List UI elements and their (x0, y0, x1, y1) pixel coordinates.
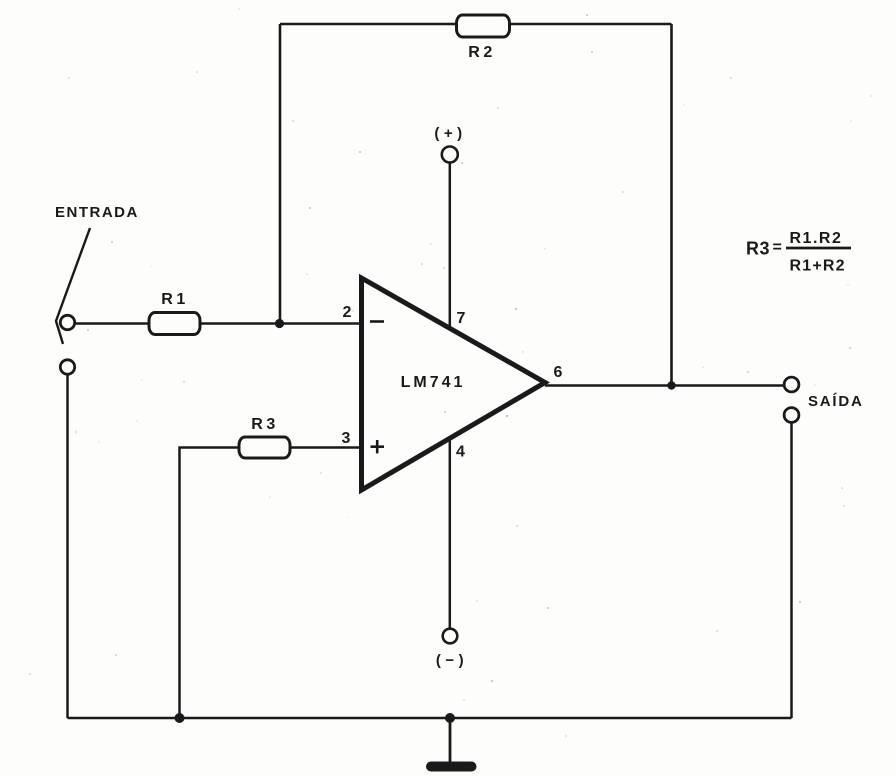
wire: right feedback vertical (670, 24, 673, 386)
svg-text:(−): (−) (436, 652, 468, 669)
wire: R1 to pin 2 (200, 322, 361, 325)
wire: input ground side down (66, 375, 69, 719)
wire: input to R1 (75, 322, 149, 325)
svg-text:7: 7 (457, 310, 466, 327)
resistor R3 (239, 437, 290, 458)
svg-text:(+): (+) (434, 125, 466, 142)
node: junction R1/feedback (275, 319, 284, 328)
svg-text:=: = (773, 239, 782, 256)
svg-text:4: 4 (456, 444, 465, 461)
wire: R3 left to vertical (180, 448, 240, 719)
ground (449, 718, 452, 763)
wire: R3 to pin 3 (290, 446, 361, 449)
wire: output ground side down (790, 423, 793, 719)
svg-text:R3: R3 (251, 416, 278, 433)
svg-text:R2: R2 (468, 44, 495, 61)
svg-text:R1+R2: R1+R2 (790, 258, 846, 275)
node: junction R3/ground rail (175, 713, 185, 723)
leader line from ENTRADA (56, 228, 90, 344)
svg-text:LM741: LM741 (401, 374, 466, 391)
wire: bottom ground rail (68, 717, 792, 720)
op-amp U1 LM741 triangle (362, 278, 546, 490)
wire: output (545, 384, 784, 387)
non-inverting input plus sign (371, 440, 385, 453)
node: junction ground symbol (445, 713, 455, 723)
pin 4 wire (449, 440, 452, 629)
input terminal (bottom) (60, 360, 74, 374)
svg-text:ENTRADA: ENTRADA (55, 204, 139, 221)
svg-text:6: 6 (554, 364, 563, 381)
output terminal (bottom) (784, 408, 799, 423)
svg-text:3: 3 (342, 430, 351, 447)
svg-text:R3: R3 (746, 239, 770, 259)
svg-text:2: 2 (343, 304, 352, 321)
resistor R1 (149, 313, 200, 335)
pin 7 wire (449, 163, 452, 329)
output terminal (top) (784, 377, 799, 392)
input terminal (top) (60, 315, 74, 329)
V- terminal circle (443, 629, 458, 644)
wire: left feedback vertical (279, 24, 282, 324)
V+ terminal circle (442, 147, 458, 163)
node: junction output/feedback (667, 381, 675, 389)
formula R3 = R1.R2/(R1+R2) (746, 230, 851, 275)
svg-text:R1: R1 (161, 291, 188, 308)
svg-text:SAÍDA: SAÍDA (808, 393, 864, 410)
resistor R2 (457, 15, 510, 37)
wire: top feedback horizontal (280, 23, 672, 26)
inverting input minus sign (370, 320, 384, 323)
svg-text:R1.R2: R1.R2 (790, 230, 843, 247)
